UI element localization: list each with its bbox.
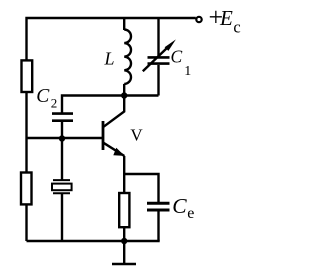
svg-text:L: L: [104, 49, 115, 69]
svg-text:E: E: [219, 6, 233, 30]
svg-text:C: C: [171, 47, 183, 67]
svg-text:C: C: [172, 194, 187, 218]
svg-text:e: e: [187, 205, 194, 222]
svg-text:2: 2: [51, 96, 58, 111]
svg-text:C: C: [36, 86, 50, 107]
svg-text:V: V: [130, 125, 143, 144]
svg-text:c: c: [233, 17, 240, 36]
svg-text:1: 1: [184, 64, 191, 79]
